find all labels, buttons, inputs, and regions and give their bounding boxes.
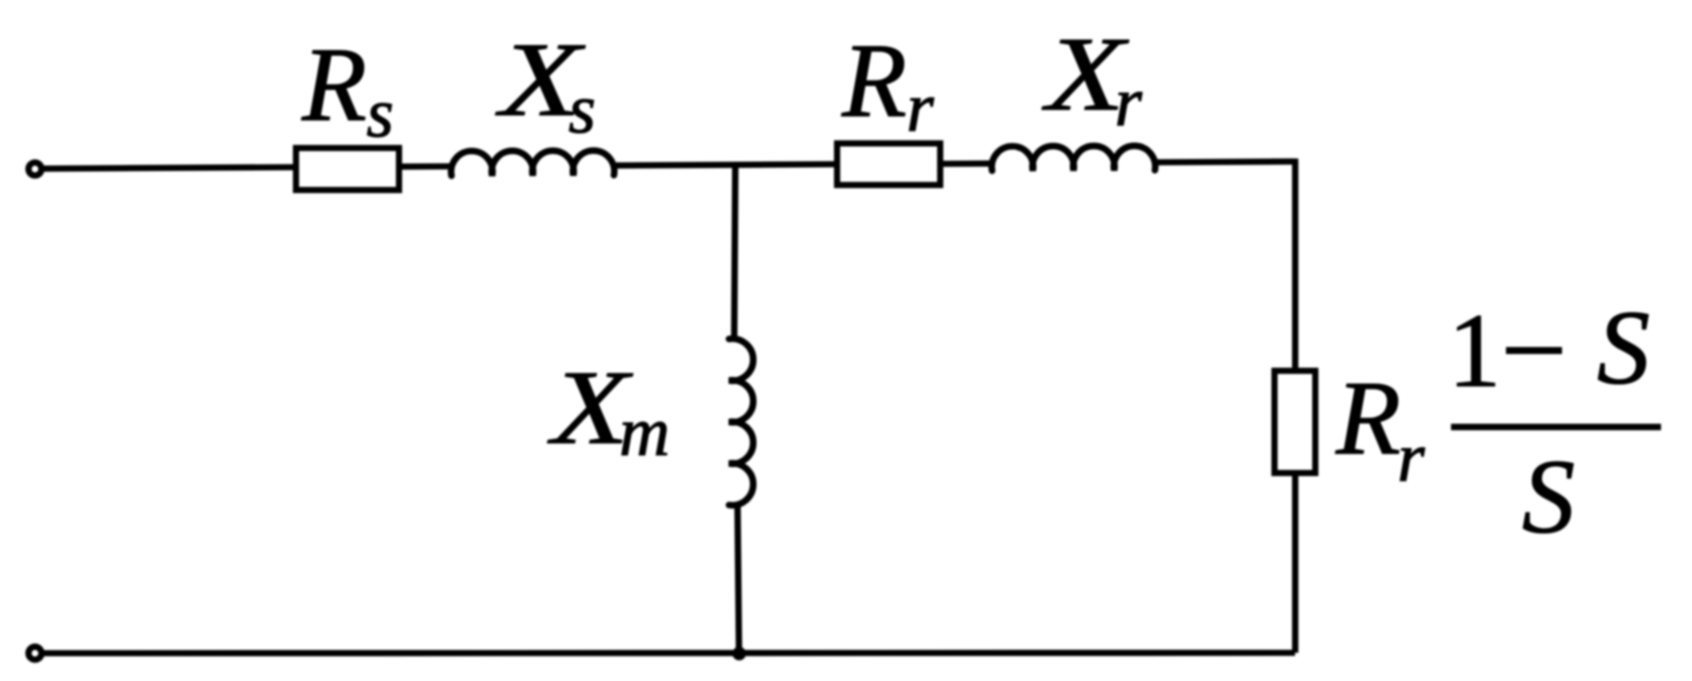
svg-text:1: 1 xyxy=(1448,292,1501,409)
fraction bar xyxy=(1451,424,1661,431)
wire right vertical lower xyxy=(1292,473,1298,653)
wire Xs to Rr through node xyxy=(613,164,837,165)
svg-text:r: r xyxy=(1397,419,1425,496)
svg-text:R: R xyxy=(1335,360,1401,477)
node T junction top of Xm branch xyxy=(734,163,735,341)
svg-text:S: S xyxy=(1597,289,1650,406)
terminal bottom-left xyxy=(29,647,42,660)
svg-text:S: S xyxy=(1522,438,1575,555)
junction dot xyxy=(732,647,746,661)
wire Xm bottom lead xyxy=(738,503,740,652)
svg-text:m: m xyxy=(619,394,670,471)
inductor X_s xyxy=(451,151,614,176)
wire right vertical upper xyxy=(1292,159,1298,372)
inductor X_m xyxy=(729,339,753,506)
terminal top-left xyxy=(29,163,42,176)
svg-text:r: r xyxy=(1115,64,1143,141)
minus sign xyxy=(1506,347,1562,354)
wire Rs to Xs xyxy=(399,163,453,170)
svg-text:R: R xyxy=(301,26,367,143)
resistor R_r xyxy=(837,143,940,185)
resistor R_r(1-S)/S body xyxy=(1275,371,1316,473)
inductor X_r xyxy=(992,146,1155,171)
wire bottom xyxy=(44,650,1295,657)
svg-text:r: r xyxy=(907,70,935,147)
svg-text:s: s xyxy=(569,72,596,149)
wire top from terminal to Rs xyxy=(44,167,294,168)
resistor R_s xyxy=(296,148,399,190)
wire Rr to Xr xyxy=(940,160,994,167)
svg-text:R: R xyxy=(841,22,907,139)
wire Xr to top-right corner xyxy=(1154,158,1295,165)
svg-text:s: s xyxy=(367,76,394,153)
